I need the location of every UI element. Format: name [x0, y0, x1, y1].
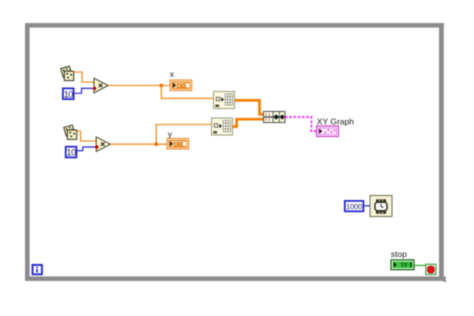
wire: build array 1 output to bundle top input (array, thick)	[235, 100, 264, 114]
build array function 2 (bottom)	[212, 118, 233, 135]
indicator terminal XY Graph	[317, 126, 339, 137]
wire: stop terminal to loop condition	[414, 264, 426, 266]
numeric constant 10 (bottom)	[66, 147, 77, 158]
wire: constant 10 top to multiply bottom input	[75, 88, 94, 93]
coercion dot (top multiply)	[93, 87, 96, 90]
random number generator (dice) bottom	[64, 125, 77, 139]
label XY Graph	[317, 116, 354, 126]
svg-text:10: 10	[64, 89, 74, 99]
random number generator (dice) top	[61, 66, 74, 80]
indicator terminal y (DBL)	[167, 139, 189, 150]
svg-text:x: x	[170, 69, 175, 79]
svg-text:XY Graph: XY Graph	[317, 116, 354, 126]
build array function 1 (top)	[214, 92, 235, 109]
wait (ms) function	[370, 196, 392, 217]
label stop	[391, 249, 407, 259]
wire: constant 1000 to wait node	[364, 205, 370, 207]
numeric constant 1000	[345, 201, 364, 211]
wire: bundle output to XY Graph terminal (cluster, dashed magenta)	[285, 117, 317, 131]
label y	[168, 129, 173, 139]
while loop border	[25, 23, 446, 283]
wire: multiply top output to x indicator and build array 1 (with junction)	[108, 84, 213, 99]
multiply function (bottom)	[96, 137, 110, 152]
multiply function (top)	[94, 78, 108, 93]
label x	[170, 69, 175, 79]
indicator terminal x (DBL)	[170, 80, 192, 91]
wire: dice top to multiply top input	[74, 72, 95, 82]
boolean control terminal stop (TF)	[391, 260, 414, 270]
svg-text:y: y	[168, 129, 173, 139]
numeric constant 10 (top)	[63, 88, 74, 99]
loop condition terminal (stop if true)	[426, 264, 436, 274]
wire: build array 2 output to bundle bottom input (array, thick)	[233, 119, 264, 126]
wire: constant 10 bottom to multiply bottom input	[77, 147, 95, 151]
svg-text:1000: 1000	[346, 202, 362, 211]
wire: dice bottom to multiply bottom-set top input	[77, 131, 97, 141]
wire: multiply bottom output to y indicator and build array 2 (with junction)	[110, 125, 211, 147]
coercion dot (bottom multiply)	[95, 145, 98, 148]
iteration terminal i	[33, 265, 42, 274]
bundle function	[264, 112, 286, 123]
svg-text:stop: stop	[391, 249, 407, 259]
svg-text:10: 10	[66, 148, 76, 158]
svg-text:TF: TF	[400, 262, 408, 269]
